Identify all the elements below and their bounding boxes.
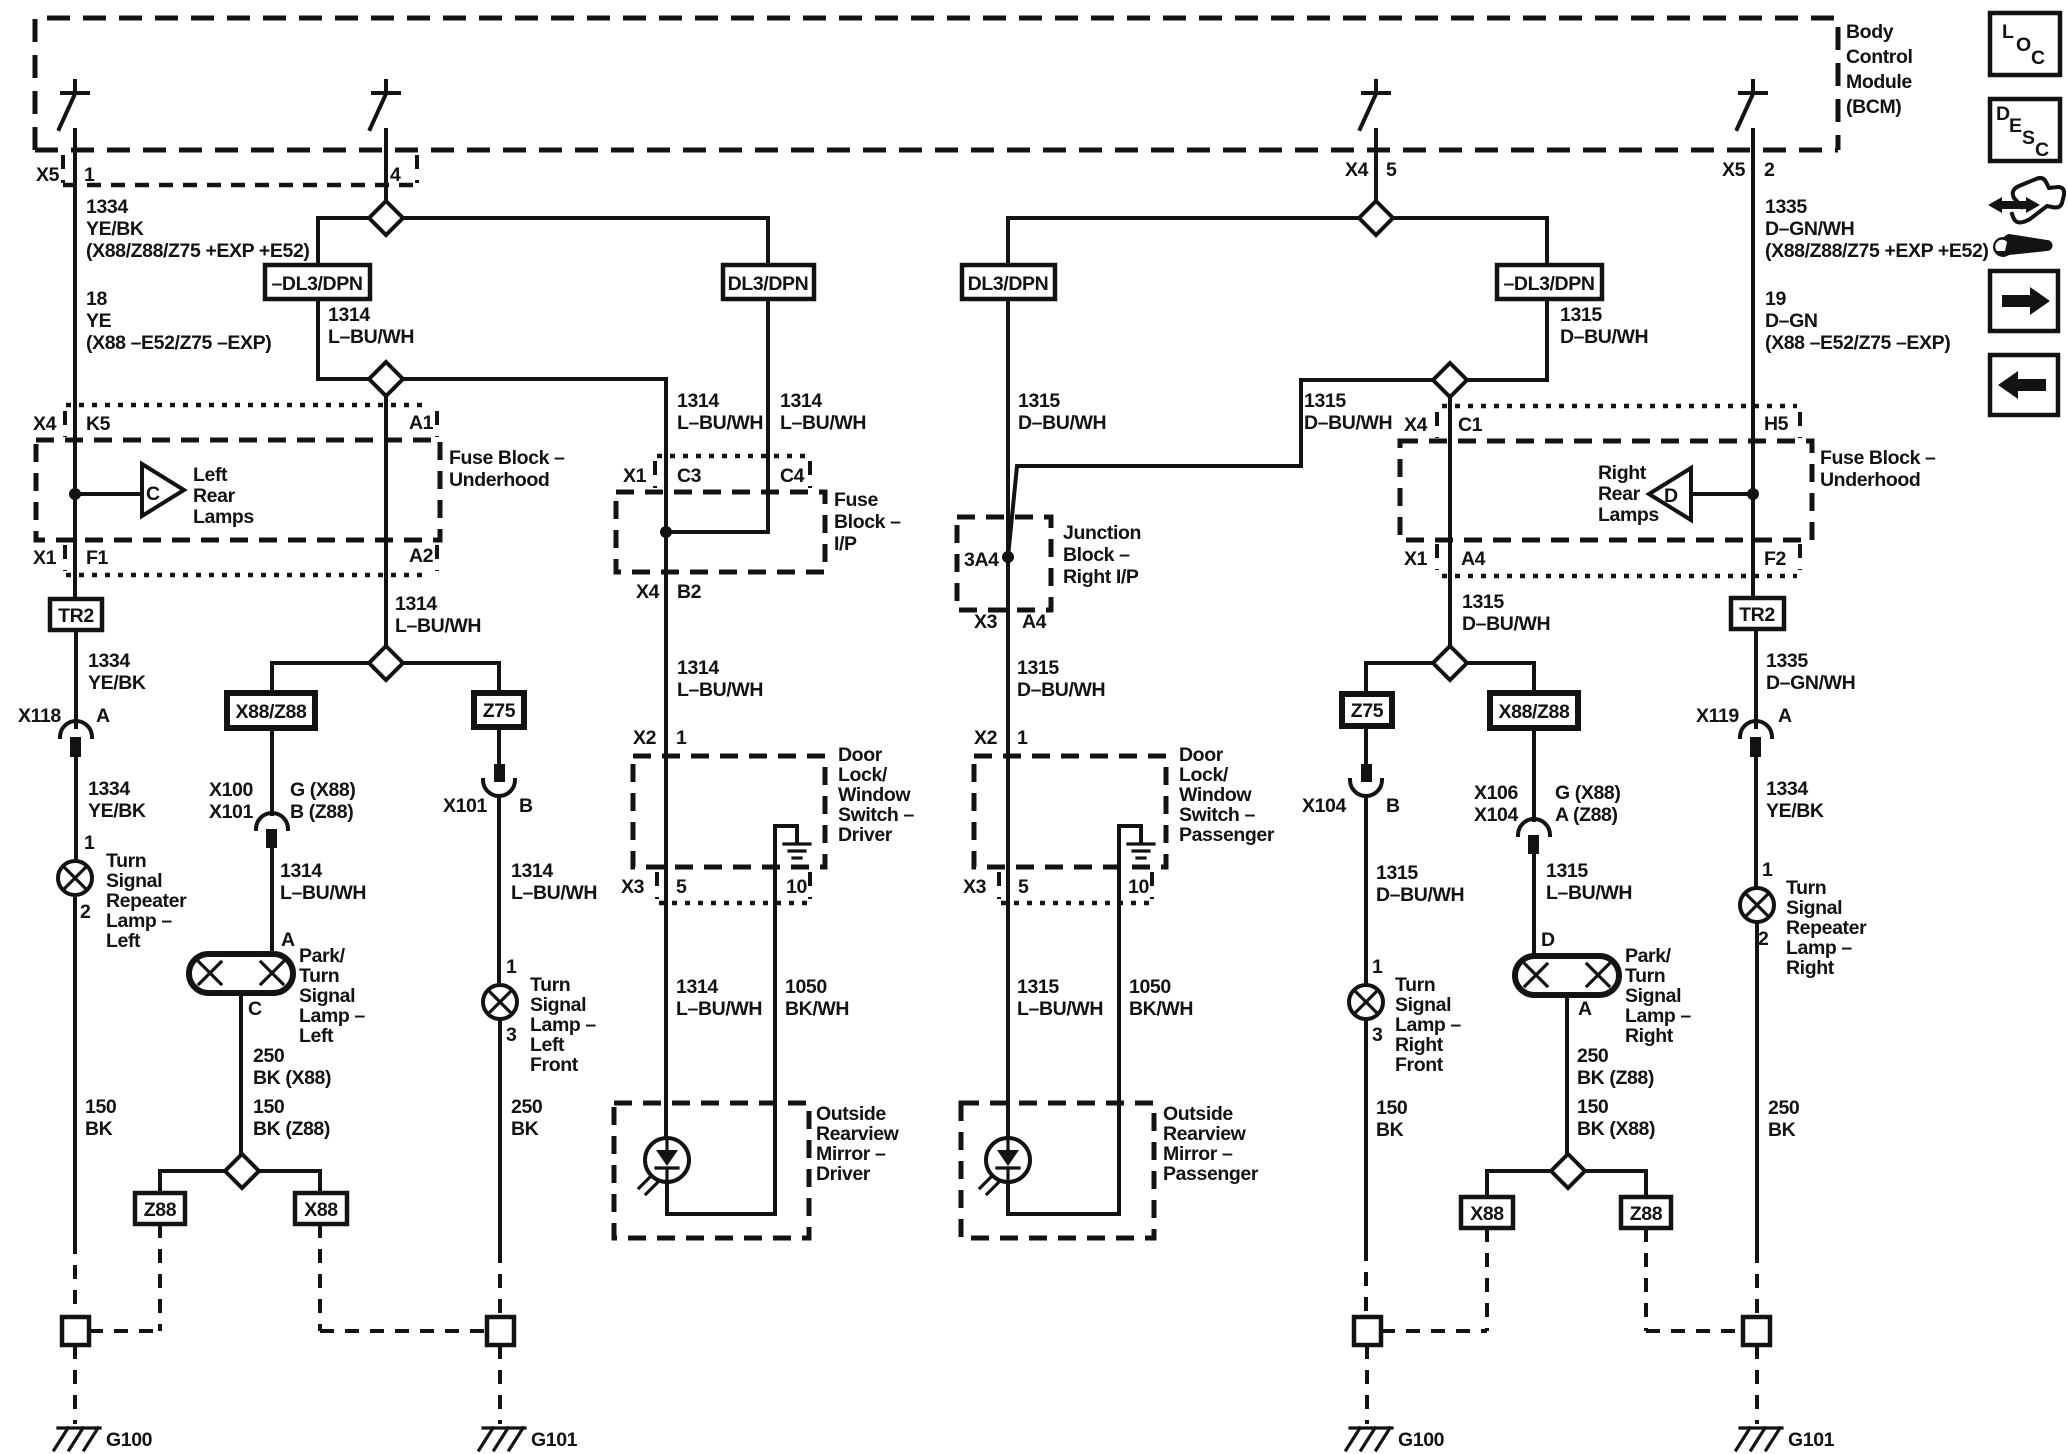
- label Turn Signal Lamp Right Front: [1395, 974, 1461, 1076]
- svg-text:1314: 1314: [677, 657, 719, 679]
- svg-text:BK: BK: [85, 1118, 113, 1140]
- svg-text:D–BU/WH: D–BU/WH: [1304, 412, 1392, 434]
- svg-text:X3: X3: [963, 876, 987, 898]
- svg-text:1: 1: [84, 164, 95, 186]
- splice diamond S2: [369, 362, 403, 396]
- svg-text:Lamp –: Lamp –: [299, 1005, 365, 1027]
- label 1315 D-BU/WH: [1376, 862, 1464, 906]
- wire below TR2 right: [1754, 629, 1758, 727]
- svg-text:1314: 1314: [677, 390, 719, 412]
- svg-text:Rear: Rear: [1598, 483, 1641, 505]
- label 1335 D-GN/WH circuit: [1765, 196, 1989, 262]
- svg-text:L–BU/WH: L–BU/WH: [511, 882, 597, 904]
- connector labels X4 B2: [636, 581, 702, 603]
- wire through fuse block left: [73, 540, 77, 599]
- switch contact BCM pin X5-1: [59, 81, 88, 150]
- splice diamond S1: [369, 201, 403, 235]
- svg-text:Right: Right: [1786, 957, 1835, 979]
- svg-text:Turn: Turn: [1395, 974, 1435, 996]
- connector strip X5 below BCM left: [36, 155, 418, 186]
- wire LED to 1050 up: [667, 1182, 775, 1214]
- svg-text:L–BU/WH: L–BU/WH: [780, 412, 866, 434]
- svg-text:1: 1: [84, 832, 95, 854]
- svg-text:(BCM): (BCM): [1846, 96, 1901, 118]
- svg-text:C3: C3: [677, 465, 702, 487]
- svg-text:5: 5: [676, 876, 687, 898]
- svg-text:X104: X104: [1474, 804, 1518, 826]
- svg-text:250: 250: [511, 1096, 543, 1118]
- svg-text:150: 150: [1577, 1096, 1609, 1118]
- off-page arrow D Right Rear Lamps: [1598, 462, 1759, 526]
- wire right repeater down: [1755, 922, 1759, 1249]
- wire below TR2: [74, 630, 78, 727]
- svg-text:1050: 1050: [1129, 976, 1171, 998]
- svg-text:BK (X88): BK (X88): [1577, 1118, 1655, 1140]
- dashed below to ground right G100: [1365, 1345, 1369, 1424]
- label 1314 L-BU/WH below -DL3/DPN: [328, 304, 414, 348]
- svg-text:Fuse: Fuse: [834, 489, 878, 511]
- svg-text:G100: G100: [1398, 1429, 1445, 1451]
- BCM label: [1846, 21, 1913, 118]
- svg-text:(X88/Z88/Z75 +EXP +E52): (X88/Z88/Z75 +EXP +E52): [86, 240, 310, 262]
- dashed below to ground: [498, 1345, 502, 1424]
- svg-text:150: 150: [1376, 1097, 1408, 1119]
- svg-text:BK (Z88): BK (Z88): [253, 1118, 330, 1140]
- svg-text:DL3/DPN: DL3/DPN: [728, 273, 809, 295]
- svg-text:1315: 1315: [1018, 390, 1060, 412]
- connector labels X4 5 top right: [1345, 159, 1397, 181]
- label Park/Turn Signal Lamp Left: [299, 945, 365, 1047]
- switch contact BCM pin 4: [370, 81, 399, 150]
- wire park lamp down to splice: [239, 993, 243, 1154]
- svg-text:Repeater: Repeater: [106, 890, 187, 912]
- label 250 BK (Z88): [1577, 1045, 1654, 1089]
- label 250 BK right repeater: [1768, 1097, 1800, 1141]
- svg-text:Switch –: Switch –: [1179, 804, 1255, 826]
- label Turn Signal Lamp Left Front: [530, 974, 596, 1076]
- svg-text:1314: 1314: [780, 390, 822, 412]
- wire right front lamp down: [1364, 1019, 1368, 1247]
- wire S7 to Z75 right: [1366, 663, 1433, 694]
- svg-text:3: 3: [506, 1024, 517, 1046]
- svg-text:BK (Z88): BK (Z88): [1577, 1067, 1654, 1089]
- svg-text:X4: X4: [1404, 414, 1428, 436]
- svg-text:BK: BK: [1768, 1119, 1796, 1141]
- fuse DL3/DPN third: [962, 265, 1055, 299]
- svg-text:Lamps: Lamps: [1598, 504, 1659, 526]
- svg-text:Window: Window: [838, 784, 911, 806]
- svg-text:F2: F2: [1764, 548, 1787, 570]
- svg-text:Front: Front: [530, 1054, 579, 1076]
- connector labels X2 1 driver switch: [633, 727, 687, 749]
- svg-text:1314: 1314: [511, 860, 553, 882]
- svg-text:Window: Window: [1179, 784, 1252, 806]
- svg-text:Left: Left: [106, 930, 141, 952]
- svg-text:1335: 1335: [1766, 650, 1808, 672]
- wire X88/Z88 right down: [1532, 728, 1536, 820]
- label 1315 L-BU/WH above passenger mirror: [1017, 976, 1103, 1020]
- fuse -DL3/DPN fourth: [1497, 265, 1602, 299]
- svg-text:Outside: Outside: [816, 1103, 886, 1125]
- svg-text:D–BU/WH: D–BU/WH: [1018, 412, 1106, 434]
- svg-text:1314: 1314: [676, 976, 718, 998]
- label Fuse Block Underhood right: [1820, 447, 1936, 491]
- svg-text:L–BU/WH: L–BU/WH: [677, 412, 763, 434]
- svg-text:O: O: [2016, 34, 2031, 56]
- svg-text:Passenger: Passenger: [1179, 824, 1275, 846]
- Outside Rearview Mirror Passenger dashed box: [961, 1103, 1154, 1238]
- svg-text:X2: X2: [974, 727, 998, 749]
- svg-text:BK: BK: [1376, 1119, 1404, 1141]
- splice diamond S5: [1359, 201, 1393, 235]
- svg-text:YE/BK: YE/BK: [88, 672, 146, 694]
- svg-text:X1: X1: [623, 465, 647, 487]
- wire 1050 from pin 10 down: [773, 867, 777, 1214]
- svg-text:X101: X101: [209, 801, 253, 823]
- connector labels X3 A4 below junction block: [974, 611, 1047, 633]
- wire below connector to front lamp: [497, 797, 501, 985]
- svg-text:Passenger: Passenger: [1163, 1163, 1259, 1185]
- splice diamond S6: [1433, 363, 1467, 397]
- dashed to G101 right: [1755, 1249, 1759, 1317]
- dashed to G101: [498, 1249, 502, 1317]
- Turn Signal Lamp Left Front bulb: [483, 985, 517, 1019]
- G101 splice square: [487, 1317, 514, 1345]
- in-line connector X119 A: [1696, 705, 1792, 757]
- svg-text:–DL3/DPN: –DL3/DPN: [271, 273, 362, 295]
- label Turn Signal Repeater Lamp Left: [106, 850, 187, 952]
- label 1315 L-BU/WH: [1546, 860, 1632, 904]
- icon box right arrow: [1990, 271, 2058, 331]
- svg-text:YE/BK: YE/BK: [86, 218, 144, 240]
- svg-text:Park/: Park/: [1625, 945, 1672, 967]
- svg-text:Block –: Block –: [1063, 544, 1130, 566]
- wire 1334 YE/BK from X5-1 down: [73, 150, 77, 599]
- svg-text:Door: Door: [1179, 744, 1224, 766]
- node junction 3A4: [1002, 551, 1014, 563]
- wire below X104 to right front lamp: [1364, 797, 1368, 985]
- G101 splice square right: [1743, 1317, 1770, 1345]
- in-line connector X106/X104: [1518, 819, 1550, 854]
- G100 splice square: [62, 1317, 89, 1345]
- svg-text:1: 1: [1372, 956, 1383, 978]
- svg-text:S: S: [2022, 127, 2035, 149]
- svg-text:D–BU/WH: D–BU/WH: [1560, 326, 1648, 348]
- svg-text:X100: X100: [209, 779, 253, 801]
- svg-text:1315: 1315: [1462, 591, 1504, 613]
- svg-text:Right: Right: [1625, 1025, 1674, 1047]
- label 1314 L-BU/WH at C3: [677, 390, 763, 434]
- svg-text:TR2: TR2: [1739, 604, 1775, 626]
- svg-text:5: 5: [1018, 876, 1029, 898]
- svg-text:L–BU/WH: L–BU/WH: [395, 615, 481, 637]
- dashed to G100 right square: [1364, 1247, 1368, 1317]
- svg-text:Signal: Signal: [106, 870, 162, 892]
- label Door Lock Window Switch Driver: [838, 744, 914, 846]
- label 1315 D-BU/WH on passenger wire: [1018, 390, 1106, 434]
- svg-text:1314: 1314: [395, 593, 437, 615]
- switch contact BCM pin X4-5: [1360, 81, 1389, 150]
- svg-text:1: 1: [1762, 859, 1773, 881]
- dashed ground wires from X88/Z88 right: [1381, 1228, 1487, 1331]
- label 18 YE circuit: [86, 288, 271, 354]
- svg-text:D–BU/WH: D–BU/WH: [1017, 679, 1105, 701]
- label 150 BK right: [1376, 1097, 1408, 1141]
- svg-text:Lamp –: Lamp –: [1395, 1014, 1461, 1036]
- svg-text:Park/: Park/: [299, 945, 346, 967]
- labels X100 X101 / G(X88) B(Z88): [209, 779, 355, 823]
- fuse TR2 left: [50, 599, 102, 630]
- svg-text:C: C: [2031, 47, 2045, 69]
- label 1050 BK/WH: [785, 976, 849, 1020]
- label 250 BK: [511, 1096, 543, 1140]
- svg-text:YE/BK: YE/BK: [88, 800, 146, 822]
- svg-text:C4: C4: [780, 465, 805, 487]
- label 1315 D-BU/WH on elbow wire: [1304, 390, 1392, 434]
- svg-text:D: D: [1541, 929, 1555, 951]
- Turn Signal Lamp Right Front bulb: [1349, 985, 1383, 1019]
- svg-text:BK: BK: [511, 1118, 539, 1140]
- svg-text:Driver: Driver: [838, 824, 893, 846]
- wire DL3/DPN down to C4: [666, 299, 768, 532]
- svg-text:Left: Left: [530, 1034, 565, 1056]
- svg-text:2: 2: [80, 901, 91, 923]
- ground wire inside driver switch: [775, 826, 797, 867]
- fuse DL3/DPN second: [723, 265, 814, 299]
- icon box LOC: [1990, 13, 2060, 75]
- svg-text:YE: YE: [86, 310, 112, 332]
- svg-text:(X88 –E52/Z75 –EXP): (X88 –E52/Z75 –EXP): [1765, 332, 1950, 354]
- svg-text:Body: Body: [1846, 21, 1894, 43]
- label 1050 BK/WH passenger: [1129, 976, 1193, 1020]
- label 250 BK (X88): [253, 1045, 331, 1089]
- wire S3 to X88/Z88: [272, 663, 369, 693]
- label 1315 D-BU/WH below fourth fuse: [1560, 304, 1648, 348]
- icon box DESC: [1990, 99, 2060, 161]
- svg-text:Door: Door: [838, 744, 883, 766]
- ground symbol G100: [54, 1428, 100, 1450]
- svg-text:Fuse Block –: Fuse Block –: [1820, 447, 1936, 469]
- svg-text:1050: 1050: [785, 976, 827, 998]
- svg-text:Driver: Driver: [816, 1163, 871, 1185]
- svg-text:Lamp –: Lamp –: [1625, 1005, 1691, 1027]
- svg-text:Front: Front: [1395, 1054, 1444, 1076]
- svg-text:250: 250: [253, 1045, 285, 1067]
- svg-text:1315: 1315: [1304, 390, 1346, 412]
- wire X4-5 down to splice S5: [1374, 150, 1378, 201]
- label 150 BK left: [85, 1096, 117, 1140]
- svg-text:3A4: 3A4: [964, 549, 999, 571]
- svg-text:Left: Left: [299, 1025, 334, 1047]
- off-page arrow C Left Rear Lamps: [142, 464, 254, 528]
- label Outside Rearview Mirror Driver: [816, 1103, 900, 1185]
- svg-text:Fuse Block –: Fuse Block –: [449, 447, 565, 469]
- svg-text:Turn: Turn: [1625, 965, 1665, 987]
- wire below connector X118: [74, 757, 78, 861]
- svg-text:(X88/Z88/Z75 +EXP +E52): (X88/Z88/Z75 +EXP +E52): [1765, 240, 1989, 262]
- wire branch to Left Rear Lamps arrow: [75, 492, 142, 496]
- Park/Turn Signal Lamp Left dual filament bulb: [189, 954, 293, 993]
- fuse -DL3/DPN left: [265, 265, 370, 299]
- svg-text:X104: X104: [1302, 795, 1346, 817]
- connector labels X5 2 top right: [1722, 159, 1775, 181]
- svg-text:Outside: Outside: [1163, 1103, 1233, 1125]
- svg-text:X1: X1: [1404, 548, 1428, 570]
- svg-text:1: 1: [676, 727, 687, 749]
- svg-text:A: A: [1578, 998, 1592, 1020]
- label 1315 D-BU/WH below A4: [1462, 591, 1550, 635]
- svg-text:250: 250: [1768, 1097, 1800, 1119]
- splice diamond S8: [1551, 1154, 1585, 1188]
- label 1314 L-BU/WH below B2: [677, 657, 763, 701]
- wire DL3/DPN third down to passenger column: [1006, 299, 1010, 756]
- icon part-outline with double arrow and wrench: [1988, 178, 2064, 257]
- fuse TR2 right: [1731, 598, 1784, 629]
- svg-text:X119: X119: [1696, 705, 1739, 727]
- harness box X88/Z88 left: [227, 693, 315, 728]
- wire 1314 to mirror driver: [664, 867, 668, 1138]
- svg-text:Block –: Block –: [834, 511, 901, 533]
- wire S5 to -DL3/DPN fourth: [1393, 218, 1547, 265]
- svg-text:Z88: Z88: [1630, 1203, 1663, 1225]
- svg-text:Switch –: Switch –: [838, 804, 914, 826]
- svg-text:A: A: [281, 929, 295, 951]
- label Junction Block Right I/P: [1063, 522, 1141, 588]
- svg-text:X4: X4: [1345, 159, 1369, 181]
- svg-text:1314: 1314: [328, 304, 370, 326]
- svg-text:4: 4: [390, 164, 401, 186]
- wire LED passenger to 1050 up: [1008, 1182, 1119, 1214]
- wire from repeater lamp down: [73, 895, 77, 1240]
- svg-text:C: C: [146, 483, 160, 505]
- svg-text:X5: X5: [36, 164, 60, 186]
- svg-text:A (Z88): A (Z88): [1555, 804, 1618, 826]
- wire S4 to Z88: [160, 1171, 225, 1193]
- svg-text:Rearview: Rearview: [816, 1123, 900, 1145]
- svg-text:Right I/P: Right I/P: [1063, 566, 1139, 588]
- svg-text:G (X88): G (X88): [290, 779, 355, 801]
- svg-text:Z75: Z75: [1351, 700, 1384, 722]
- in-line connector X104 B: [1302, 764, 1400, 817]
- svg-text:X2: X2: [633, 727, 657, 749]
- label 1314 L-BU/WH above A2... below fuse block: [395, 593, 481, 637]
- wire pin4 down to splice diamond: [384, 150, 388, 201]
- harness box Z88 bottom right: [1621, 1197, 1671, 1228]
- label Park/Turn Signal Lamp Right: [1625, 945, 1691, 1047]
- svg-text:1: 1: [506, 956, 517, 978]
- ground symbol G101: [479, 1428, 525, 1450]
- svg-text:D–GN: D–GN: [1765, 310, 1818, 332]
- svg-text:Z75: Z75: [483, 700, 516, 722]
- svg-text:250: 250: [1577, 1045, 1609, 1067]
- svg-text:L–BU/WH: L–BU/WH: [280, 882, 366, 904]
- label 1334 YE/BK: [88, 650, 146, 694]
- wire below connector X119: [1754, 757, 1758, 888]
- wire S8 to Z88 right: [1585, 1171, 1646, 1197]
- wire X5-2 down right side: [1751, 150, 1755, 598]
- svg-text:G (X88): G (X88): [1555, 782, 1620, 804]
- label 1334 YE/BK right: [1766, 778, 1824, 822]
- ground wire inside passenger switch: [1119, 826, 1141, 867]
- svg-text:X5: X5: [1722, 159, 1746, 181]
- svg-text:BK (X88): BK (X88): [253, 1067, 331, 1089]
- label 1334 YE/BK below X118: [88, 778, 146, 822]
- svg-text:1334: 1334: [86, 196, 128, 218]
- label 19 D-GN circuit: [1765, 288, 1950, 354]
- Fuse Block I/P dashed box: [616, 492, 825, 572]
- svg-text:D–GN/WH: D–GN/WH: [1766, 672, 1855, 694]
- label Door Lock Window Switch Passenger: [1179, 744, 1275, 846]
- svg-text:19: 19: [1765, 288, 1786, 310]
- svg-text:B (Z88): B (Z88): [290, 801, 353, 823]
- label 150 BK (Z88): [253, 1096, 330, 1140]
- svg-text:Lamp –: Lamp –: [1786, 937, 1852, 959]
- svg-text:D–GN/WH: D–GN/WH: [1765, 218, 1854, 240]
- harness box X88 bottom right: [1461, 1197, 1513, 1228]
- svg-text:D: D: [1996, 103, 2010, 125]
- svg-text:1: 1: [1017, 727, 1028, 749]
- svg-text:Lamp –: Lamp –: [106, 910, 172, 932]
- svg-text:Z88: Z88: [144, 1199, 177, 1221]
- wire S5 to DL3/DPN third: [1008, 218, 1359, 265]
- svg-text:Turn: Turn: [530, 974, 570, 996]
- fuse block I/P top connector strip X1 C3 C4: [623, 456, 813, 488]
- svg-text:2: 2: [1758, 928, 1769, 950]
- wire Z75 right down: [1364, 726, 1368, 764]
- wire lamp down: [498, 1019, 502, 1249]
- svg-text:1315: 1315: [1376, 862, 1418, 884]
- svg-text:18: 18: [86, 288, 107, 310]
- Outside Rearview Mirror Driver dashed box: [614, 1103, 809, 1238]
- svg-text:1315: 1315: [1017, 976, 1059, 998]
- ground symbol G100 right: [1346, 1428, 1392, 1450]
- svg-text:Junction: Junction: [1063, 522, 1141, 544]
- Body Control Module (BCM) dashed outline: [35, 18, 1838, 150]
- wire 1315 to mirror passenger: [1006, 867, 1010, 1138]
- splice diamond S4: [225, 1154, 259, 1188]
- svg-text:Signal: Signal: [1395, 994, 1451, 1016]
- splice diamond S7: [1433, 646, 1467, 680]
- svg-text:Signal: Signal: [1625, 985, 1681, 1007]
- svg-text:3: 3: [1372, 1024, 1383, 1046]
- icon box left arrow: [1990, 355, 2058, 415]
- svg-text:X4: X4: [636, 581, 660, 603]
- svg-text:Repeater: Repeater: [1786, 917, 1867, 939]
- right fuse block top connector strip X4 C1 H5: [1404, 406, 1800, 438]
- svg-text:X1: X1: [33, 547, 57, 569]
- label 150 BK (X88): [1577, 1096, 1655, 1140]
- wire S2 to fuse block I/P pin C3: [403, 379, 666, 492]
- Door Lock/Window Switch Driver dashed box: [633, 756, 825, 867]
- node junction C3/C4: [660, 526, 672, 538]
- svg-text:DL3/DPN: DL3/DPN: [968, 273, 1049, 295]
- labels X106 X104 / G(X88) A(Z88): [1474, 782, 1620, 826]
- svg-text:BK/WH: BK/WH: [785, 998, 849, 1020]
- Door Lock/Window Switch Passenger dashed box: [974, 756, 1166, 867]
- svg-text:X88/Z88: X88/Z88: [1499, 701, 1570, 723]
- label 1314 L-BU/WH: [511, 860, 597, 904]
- svg-text:A: A: [1778, 705, 1792, 727]
- in-line connector X118 A: [18, 705, 110, 757]
- in-line connector X100/X101: [256, 813, 288, 848]
- left fuse block bottom connector strip X1 F1 A2: [33, 545, 437, 575]
- svg-text:L–BU/WH: L–BU/WH: [328, 326, 414, 348]
- LED turn indicator passenger mirror: [980, 1138, 1030, 1194]
- svg-text:–DL3/DPN: –DL3/DPN: [1503, 273, 1594, 295]
- dashed below square to ground: [73, 1345, 77, 1424]
- harness box X88/Z88 right: [1490, 693, 1578, 728]
- svg-text:(X88 –E52/Z75 –EXP): (X88 –E52/Z75 –EXP): [86, 332, 271, 354]
